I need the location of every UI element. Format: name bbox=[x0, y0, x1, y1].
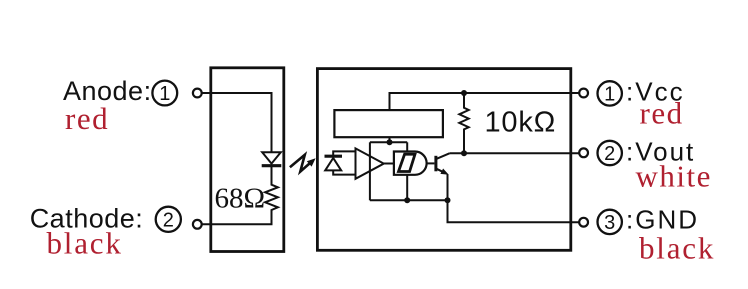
schmitt trigger U1 bbox=[394, 152, 427, 175]
junction dot emitter-ground rail bbox=[445, 197, 451, 203]
amplifier A1 triangle bbox=[356, 148, 384, 178]
photodiode PD1 bbox=[325, 156, 343, 170]
svg-text:68Ω: 68Ω bbox=[215, 183, 266, 215]
pin number 2 (Vout) bbox=[598, 141, 622, 165]
wire amp output to schmitt input bbox=[384, 163, 394, 165]
wire right drop to schmitt top bbox=[406, 142, 408, 151]
wire feedback rail bbox=[370, 141, 407, 143]
terminal node cathode bbox=[193, 220, 202, 229]
wire collector Vout line to terminal bbox=[450, 152, 579, 154]
junction dot Vout-resistor bbox=[461, 150, 467, 156]
wire left drop to internal ground rail bbox=[369, 142, 371, 200]
svg-text:1: 1 bbox=[604, 84, 615, 106]
junction dot Vcc-resistor bbox=[461, 90, 467, 96]
svg-text:red: red bbox=[65, 101, 109, 136]
terminal node Vcc bbox=[579, 89, 588, 98]
svg-text:3: 3 bbox=[604, 212, 615, 234]
wire schmitt bottom stub bbox=[406, 175, 408, 201]
junction dot schmitt bottom stub bbox=[404, 197, 410, 203]
wire internal ground rail bbox=[370, 199, 448, 201]
pin number 2 (cathode lead) bbox=[156, 207, 181, 232]
svg-text:black: black bbox=[639, 231, 715, 266]
wire Vcc rail bbox=[390, 93, 580, 110]
svg-text:red: red bbox=[640, 96, 684, 131]
light emission arrow bbox=[290, 155, 316, 172]
wire emitter down and GND line to terminal bbox=[448, 175, 580, 223]
svg-text:2: 2 bbox=[604, 143, 615, 165]
pin number 1 (Vcc) bbox=[598, 81, 622, 105]
resistor R1 68ohm zigzag bbox=[265, 166, 278, 212]
terminal node GND bbox=[579, 218, 588, 227]
wire cathode terminal to resistor bottom bbox=[202, 211, 272, 224]
wire anode terminal to LED anode bbox=[202, 93, 272, 152]
LED D1 bbox=[262, 152, 282, 165]
emitter package box bbox=[211, 68, 284, 252]
amplifier block rectangle bbox=[334, 110, 443, 137]
resistor R2 10k zigzag bbox=[459, 93, 468, 153]
junction dot feedback rail bbox=[387, 139, 393, 145]
wire amp block bottom stub bbox=[389, 137, 391, 142]
pin number 1 (anode lead) bbox=[152, 81, 177, 106]
pin number 3 (GND) bbox=[598, 210, 622, 234]
transistor Q1 bbox=[436, 153, 450, 175]
wire schmitt output to transistor base bbox=[427, 162, 435, 164]
svg-text:black: black bbox=[47, 226, 123, 261]
terminal node Vout bbox=[579, 148, 588, 157]
terminal node anode bbox=[193, 89, 202, 98]
detector package box bbox=[317, 69, 570, 251]
svg-text:white: white bbox=[636, 158, 712, 193]
svg-text:2: 2 bbox=[163, 210, 174, 232]
wire photodiode cathode to amp input bbox=[333, 151, 355, 155]
svg-text:1: 1 bbox=[159, 83, 170, 105]
wire photodiode anode to amp input bbox=[333, 170, 355, 174]
svg-text:10kΩ: 10kΩ bbox=[485, 107, 557, 139]
